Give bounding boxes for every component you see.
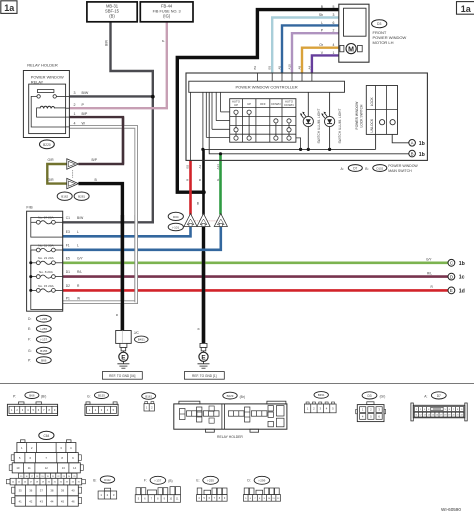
svg-text:P: P [161, 40, 165, 42]
svg-text:L: L [77, 244, 79, 248]
svg-text:A4: A4 [307, 65, 311, 69]
svg-text:(Br): (Br) [41, 395, 46, 399]
svg-text:LOCK SWITCH: LOCK SWITCH [359, 104, 363, 128]
svg-text:DOWN: DOWN [271, 102, 280, 106]
svg-text:1b: 1b [419, 141, 425, 147]
svg-text:No. 8 20A: No. 8 20A [39, 270, 54, 274]
svg-text:41: 41 [19, 499, 23, 503]
svg-text:G/Y: G/Y [426, 258, 432, 262]
svg-text:B66: B66 [29, 394, 35, 398]
svg-text:(Br): (Br) [240, 395, 245, 399]
svg-text:D:: D: [28, 317, 31, 321]
svg-text:A: A [411, 141, 414, 146]
svg-text:45: 45 [61, 499, 65, 503]
svg-text:i-255: i-255 [207, 479, 214, 483]
svg-text:WI-60590: WI-60590 [441, 507, 461, 512]
svg-text:i-137: i-137 [155, 479, 162, 483]
svg-text:W: W [82, 122, 86, 126]
svg-text:POWER WINDOW: POWER WINDOW [388, 164, 418, 168]
svg-text:D3: D3 [367, 394, 371, 398]
svg-text:i-255: i-255 [40, 327, 47, 331]
svg-text:G:: G: [28, 349, 32, 353]
svg-text:DOWN: DOWN [284, 103, 293, 107]
svg-text:P1: P1 [66, 297, 70, 301]
svg-text:2: 2 [333, 29, 335, 33]
svg-text:F1: F1 [66, 244, 70, 248]
svg-text:P:: P: [13, 395, 16, 399]
svg-text:10: 10 [16, 466, 20, 470]
svg-text:B/P: B/P [92, 158, 98, 162]
svg-text:E3: E3 [66, 230, 70, 234]
svg-text:B: B [411, 151, 414, 156]
svg-text:G/R: G/R [48, 158, 55, 162]
svg-text:43: 43 [40, 499, 44, 503]
svg-text:D7: D7 [353, 166, 357, 170]
svg-text:REF. TO GND [04]: REF. TO GND [04] [109, 374, 135, 378]
svg-text:3: 3 [333, 13, 335, 17]
svg-text:FB-44: FB-44 [161, 3, 173, 8]
svg-text:1b: 1b [419, 152, 425, 158]
svg-text:A5: A5 [277, 65, 281, 69]
svg-text:OFF: OFF [260, 102, 266, 106]
svg-text:REF. TO GND [1]: REF. TO GND [1] [192, 374, 217, 378]
svg-text:B451: B451 [318, 393, 325, 397]
svg-text:i-299: i-299 [259, 479, 266, 483]
svg-text:4: 4 [333, 43, 335, 47]
svg-text:37: 37 [40, 489, 44, 493]
svg-text:40: 40 [71, 489, 75, 493]
svg-text:11: 11 [28, 466, 31, 470]
svg-text:D3: D3 [377, 22, 381, 26]
svg-text:D: D [450, 274, 453, 279]
svg-text:B3: B3 [268, 65, 272, 69]
svg-text:36: 36 [29, 489, 33, 493]
svg-text:D7: D7 [437, 394, 441, 398]
svg-text:RELAY HOLDER: RELAY HOLDER [27, 62, 58, 67]
svg-text:M: M [348, 46, 354, 53]
svg-text:UP: UP [247, 102, 251, 106]
svg-text:B155: B155 [40, 349, 47, 353]
svg-text:L: L [321, 21, 323, 25]
svg-text:i-101: i-101 [172, 225, 179, 229]
svg-text:B162: B162 [61, 195, 68, 199]
svg-text:E: E [121, 354, 126, 361]
svg-text:A10: A10 [287, 64, 291, 70]
svg-text:B/W: B/W [82, 91, 89, 95]
svg-text:B161: B161 [145, 394, 152, 398]
svg-text:5: 5 [333, 5, 335, 9]
svg-text:14: 14 [73, 466, 77, 470]
svg-text:46: 46 [71, 499, 75, 503]
svg-text:3: 3 [74, 91, 76, 95]
svg-text:E: E [201, 354, 206, 361]
svg-text:A14: A14 [216, 164, 220, 170]
svg-text:B: B [197, 328, 201, 330]
svg-text:SWITCH ILLUMI. LIGHT: SWITCH ILLUMI. LIGHT [317, 109, 321, 144]
svg-text:POWER WINDOW: POWER WINDOW [355, 101, 359, 130]
svg-text:A1: A1 [198, 164, 202, 168]
svg-text:B1: B1 [253, 65, 257, 69]
svg-text:UP: UP [234, 103, 238, 107]
svg-text:1: 1 [74, 112, 76, 116]
svg-text:L: L [77, 230, 79, 234]
svg-text:C: C [450, 261, 453, 266]
svg-text:G:: G: [87, 395, 91, 399]
svg-text:B220: B220 [43, 143, 51, 147]
svg-text:42: 42 [29, 499, 33, 503]
svg-text:RELAY HOLDER: RELAY HOLDER [217, 435, 243, 439]
svg-text:R/L: R/L [77, 270, 82, 274]
svg-text:No. 11 30A: No. 11 30A [38, 243, 54, 247]
svg-text:B229: B229 [227, 394, 234, 398]
svg-text:44: 44 [50, 499, 54, 503]
svg-text:MAIN SWITCH: MAIN SWITCH [388, 169, 412, 173]
svg-text:39: 39 [61, 489, 65, 493]
svg-text:R/L: R/L [427, 271, 432, 275]
svg-text:1b: 1b [459, 261, 465, 267]
svg-text:B/W: B/W [105, 40, 109, 46]
svg-text:1c: 1c [459, 275, 465, 281]
svg-text:B: B [197, 202, 199, 206]
svg-text:i-137: i-137 [40, 338, 47, 342]
svg-text:C64: C64 [43, 434, 49, 438]
svg-text:G/R: G/R [48, 178, 55, 182]
svg-text:B: B [115, 314, 119, 316]
svg-text:B/P: B/P [82, 112, 88, 116]
svg-text:4: 4 [74, 122, 76, 126]
svg-text:D112: D112 [104, 478, 111, 482]
svg-text:RELAY: RELAY [31, 79, 44, 84]
svg-text:D102: D102 [376, 166, 383, 170]
svg-text:6: 6 [333, 21, 335, 25]
svg-text:2: 2 [74, 103, 76, 107]
svg-text:1d: 1d [459, 288, 465, 294]
svg-text:B/W: B/W [77, 216, 84, 220]
svg-text:F/B: F/B [26, 204, 33, 209]
svg-text:SWITCH ILLUMI. LIGHT: SWITCH ILLUMI. LIGHT [338, 109, 342, 144]
svg-text:B2: B2 [185, 164, 189, 168]
svg-text:D:: D: [247, 479, 250, 483]
svg-text:B66: B66 [41, 358, 47, 362]
svg-text:A:: A: [424, 395, 427, 399]
svg-text:12: 12 [45, 466, 49, 470]
svg-text:C1: C1 [66, 216, 70, 220]
svg-text:B155: B155 [98, 394, 105, 398]
svg-text:No. 15 20A: No. 15 20A [38, 284, 54, 288]
svg-text:POWER WINDOW CONTROLLER: POWER WINDOW CONTROLLER [235, 85, 297, 90]
svg-text:E:: E: [28, 327, 31, 331]
svg-text:UNLOCK: UNLOCK [370, 118, 374, 133]
svg-text:(B): (B) [109, 14, 115, 19]
svg-text:(Gr): (Gr) [380, 395, 386, 399]
svg-text:A:: A: [341, 167, 344, 171]
svg-text:13: 13 [62, 466, 66, 470]
svg-text:P:: P: [28, 359, 31, 363]
svg-text:E5: E5 [66, 256, 70, 260]
svg-text:1a: 1a [4, 3, 15, 13]
svg-text:No. 24 20A: No. 24 20A [38, 216, 54, 220]
svg-text:D1: D1 [66, 270, 70, 274]
svg-text:D2: D2 [66, 284, 70, 288]
svg-text:E:: E: [196, 479, 199, 483]
svg-text:A8: A8 [297, 65, 301, 69]
svg-text:B451: B451 [138, 338, 145, 342]
svg-text:i-299: i-299 [40, 317, 47, 321]
svg-text:No. 21 20A: No. 21 20A [38, 256, 54, 260]
svg-text:G/Y: G/Y [77, 256, 83, 260]
svg-text:Sb: Sb [319, 13, 323, 17]
svg-text:D04: D04 [173, 215, 179, 219]
svg-text:E: E [450, 288, 453, 293]
svg-text:B:: B: [365, 167, 368, 171]
svg-text:1a: 1a [461, 4, 472, 14]
svg-text:1: 1 [333, 51, 335, 55]
svg-text:(IG): (IG) [163, 14, 171, 19]
svg-text:F:: F: [144, 479, 147, 483]
svg-text:LOCK: LOCK [370, 97, 374, 107]
svg-text:F:: F: [28, 338, 31, 342]
svg-text:B:: B: [93, 479, 96, 483]
svg-text:(B): (B) [168, 479, 172, 483]
svg-text:J/C: J/C [134, 331, 140, 335]
svg-text:35: 35 [19, 489, 23, 493]
svg-text:B: B [198, 179, 202, 181]
svg-text:38: 38 [50, 489, 54, 493]
svg-text:B281: B281 [78, 195, 85, 199]
svg-text:MOTOR LH: MOTOR LH [373, 40, 394, 45]
